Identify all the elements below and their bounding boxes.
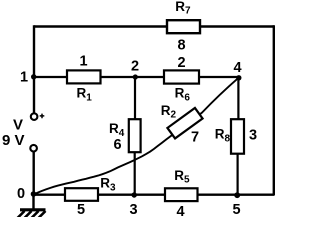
svg-text:8: 8 — [177, 37, 185, 53]
resistor R6 body — [164, 70, 199, 83]
node 3 — [132, 192, 137, 197]
svg-text:6: 6 — [113, 137, 121, 153]
wire node2 to R4 — [134, 77, 136, 120]
ground — [18, 195, 46, 219]
svg-text:3: 3 — [249, 127, 257, 143]
resistor R7 body — [167, 20, 200, 33]
svg-text:5: 5 — [77, 202, 85, 217]
wire R4 to node3 — [134, 152, 136, 196]
node 4 — [236, 75, 241, 80]
wire node4 to R8 — [237, 78, 239, 121]
svg-text:0: 0 — [17, 186, 25, 202]
wire bottom (node0 to right edge) — [34, 193, 275, 195]
node 0 — [31, 191, 37, 197]
wire left edge upper (top corner to battery + terminal) — [33, 25, 35, 112]
resistor R8 body (vertical) — [231, 119, 244, 154]
svg-text:V: V — [13, 116, 23, 133]
resistor R2 body (diagonal) — [167, 108, 202, 139]
wire mid row (node1-node2-node4) — [34, 76, 239, 78]
plus sign — [40, 114, 45, 119]
resistor R5 body — [165, 188, 198, 201]
svg-text:3: 3 — [129, 202, 137, 217]
svg-text:4: 4 — [233, 60, 241, 76]
wire left edge lower (battery - terminal to node0) — [33, 152, 35, 195]
battery - terminal (circle) — [30, 145, 37, 152]
node 5 — [234, 192, 240, 198]
svg-text:5: 5 — [232, 202, 240, 217]
battery + terminal (circle) — [31, 113, 38, 120]
svg-text:9 V: 9 V — [2, 132, 25, 149]
wire curve node0 to node4 through R2 — [34, 78, 239, 194]
svg-text:4: 4 — [176, 204, 184, 217]
svg-text:1: 1 — [79, 54, 87, 70]
svg-text:7: 7 — [191, 130, 199, 146]
wire right edge — [273, 25, 275, 195]
resistor R4 body (vertical) — [129, 119, 141, 152]
node 1 — [31, 74, 36, 79]
wire top (node1 to right edge, through R7) — [34, 25, 274, 28]
svg-text:2: 2 — [131, 58, 139, 74]
wire R8 to node5 — [237, 153, 239, 195]
resistor R3 body — [65, 188, 98, 201]
svg-text:1: 1 — [20, 69, 28, 85]
node 2 — [133, 74, 138, 79]
resistor R1 body — [67, 70, 101, 83]
svg-text:2: 2 — [177, 55, 185, 71]
